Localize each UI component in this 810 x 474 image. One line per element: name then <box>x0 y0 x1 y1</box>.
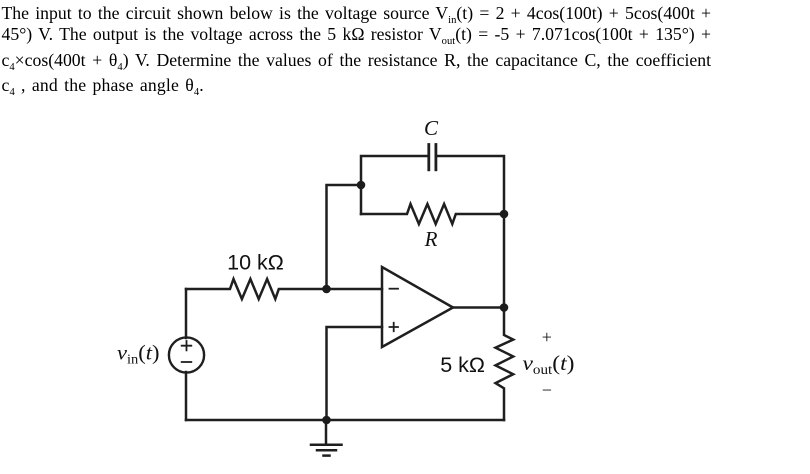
svg-text:vout(t): vout(t) <box>523 351 575 377</box>
svg-text:−: − <box>542 380 552 400</box>
svg-text:+: + <box>542 327 552 347</box>
svg-text:5 kΩ: 5 kΩ <box>440 353 485 377</box>
svg-text:C: C <box>424 116 439 140</box>
svg-text:R: R <box>424 227 438 251</box>
svg-text:10 kΩ: 10 kΩ <box>227 250 284 274</box>
svg-text:vin(t): vin(t) <box>117 341 160 367</box>
